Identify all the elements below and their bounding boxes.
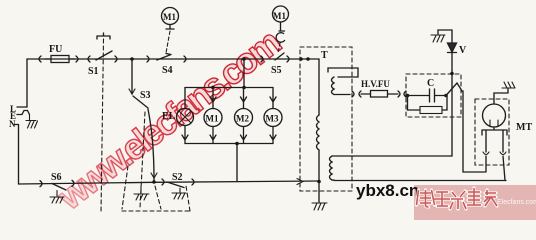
node: bus junction at drop: [242, 86, 246, 90]
connector arrow pair at fuse left: [39, 56, 41, 62]
wire: magnetron anode to chassis: [494, 89, 508, 104]
svg-text:M2: M2: [236, 114, 249, 124]
motor M1 (turntable) above S4: [162, 8, 179, 25]
magnetron MT dashed box: [475, 99, 509, 165]
connector arrow right of S4: [184, 56, 186, 62]
wire: top mains wire: [27, 58, 319, 60]
door plunger head above S1: [97, 33, 110, 39]
svg-text:T: T: [321, 50, 328, 61]
dashed linkage near S2: [155, 186, 161, 209]
wire: bank bottom bus: [185, 143, 273, 145]
connector arrow left of S5: [261, 56, 263, 62]
motor M2 of bank: [241, 88, 247, 109]
wire: S3 lower lead to bottom wire: [148, 109, 154, 181]
magnetron MT body: [483, 104, 506, 127]
connector arrow right of S1: [115, 56, 117, 62]
chassis ground below transformer: [312, 203, 327, 210]
door assembly dashed outline: [122, 166, 128, 209]
red banner elecfans bottom right: [414, 185, 536, 220]
wire: left vertical to L terminal: [17, 59, 27, 107]
fuse H.V.FU: [371, 91, 388, 98]
svg-text:M3: M3: [266, 114, 279, 124]
connector arrow left of S2: [162, 179, 164, 185]
switch S1 blade: [96, 51, 112, 60]
motor M1 (fan) above S5: [273, 6, 289, 22]
svg-text:M1: M1: [163, 12, 176, 22]
node: bank drop junction: [235, 142, 239, 146]
wire: filament bottom lead to magnetron: [334, 180, 506, 182]
dashed linkage below S3: [140, 112, 145, 208]
chassis ground under S6: [50, 191, 64, 204]
connector arrow right of S2: [192, 179, 194, 185]
svg-text:H.V.FU: H.V.FU: [361, 79, 390, 89]
svg-text:S6: S6: [51, 172, 62, 183]
switch S4 blade: [157, 54, 171, 61]
svg-text:N: N: [9, 119, 16, 129]
node: bus junction above M1: [211, 86, 215, 90]
wire: right filament leg to bottom wire: [503, 156, 505, 181]
svg-text:M1: M1: [273, 11, 286, 21]
wire: drop from top wire to bank bus: [243, 59, 245, 88]
motor M1 of bank: [210, 88, 216, 109]
connector arrow left of S4: [147, 56, 149, 62]
svg-text:ybx8.cn: ybx8.cn: [356, 181, 419, 200]
switch S3 blade: [133, 96, 148, 108]
wire: diode top to chassis: [438, 30, 452, 34]
svg-text:S5: S5: [271, 65, 282, 76]
chassis ground at diode: [431, 35, 445, 42]
wire: S3 branch vertical: [131, 59, 133, 94]
connector arrow on S3 lower lead: [151, 173, 157, 178]
wire: junction to diode vertical: [446, 83, 463, 96]
diode V vertical run: [451, 30, 453, 156]
svg-text:C: C: [427, 78, 434, 89]
terminal E lead: [17, 111, 30, 115]
fuse FU: [51, 56, 69, 63]
svg-text:V: V: [459, 45, 467, 56]
node: primary bottom junction: [317, 180, 321, 184]
transformer T dashed box: [300, 47, 352, 191]
wire: cap junction down to magnetron cathode: [463, 91, 485, 172]
connector arrow right of S5: [287, 56, 289, 62]
transformer primary winding: [318, 59, 320, 115]
wire: bank drop to bottom mains: [236, 144, 238, 182]
chassis ground center door: [134, 186, 149, 200]
diode V symbol: [448, 43, 457, 52]
connector arrows at HV fuse right: [398, 91, 406, 97]
node: capacitor output junction: [444, 94, 448, 98]
connector arrow on S3 branch: [129, 89, 135, 94]
wire: bottom mains wire: [19, 181, 320, 184]
connector arrow right of S6: [72, 180, 74, 186]
connector arrows right of fuse: [76, 56, 90, 62]
switch S6 blade: [52, 184, 66, 191]
connector arrows at HV fuse left: [352, 91, 361, 97]
bleeder resistor: [408, 96, 448, 111]
motor M3 of bank: [270, 88, 276, 109]
wire: bank top bus: [185, 87, 273, 89]
wire: left filament leg: [485, 156, 487, 172]
svg-text:S4: S4: [162, 65, 173, 76]
chassis ground at E: [26, 115, 38, 129]
svg-text:MT: MT: [516, 122, 532, 133]
terminal N lead: [15, 125, 19, 185]
switch S5 blade: [275, 53, 284, 60]
node: capacitor input junction: [406, 94, 410, 98]
svg-text:S2: S2: [172, 172, 183, 183]
chassis ground at magnetron: [502, 82, 515, 88]
node: T box entry dots: [299, 57, 303, 61]
chassis ground under S2: [172, 188, 186, 199]
banner text 电子发烧友 pseudo-glyphs: [417, 188, 498, 209]
dashed linkage from plunger through S1: [101, 39, 104, 213]
connector arrow into transformer: [297, 179, 303, 185]
capacitor C plates: [406, 89, 446, 102]
node: S3 branch junction on top wire: [130, 57, 134, 61]
lamp EL drop: [184, 88, 186, 109]
svg-text:FU: FU: [49, 44, 62, 55]
wire: filament top lead to cathode junction: [341, 155, 452, 157]
capacitor C dashed box: [406, 74, 461, 117]
node: diode junction at box top: [450, 72, 454, 76]
svg-text:EL: EL: [162, 111, 176, 122]
lamp EL: [177, 109, 194, 126]
transformer filament winding: [330, 156, 333, 180]
connector arrow on bottom wire left: [40, 181, 42, 187]
svg-text:M1: M1: [206, 114, 219, 124]
thermal protector under fan motor: [276, 33, 285, 43]
svg-text:Elecfans.com: Elecfans.com: [497, 199, 536, 206]
svg-text:S1: S1: [88, 66, 99, 77]
node: S3 branch junction on bottom wire: [152, 180, 156, 184]
transformer HV secondary winding: [328, 68, 358, 77]
node: drop to motor bank: [242, 57, 246, 61]
wire: primary to chassis: [318, 182, 320, 203]
magnetron filament terminals: [482, 127, 507, 135]
svg-text:S3: S3: [140, 90, 151, 101]
switch S2 blade: [167, 182, 184, 188]
